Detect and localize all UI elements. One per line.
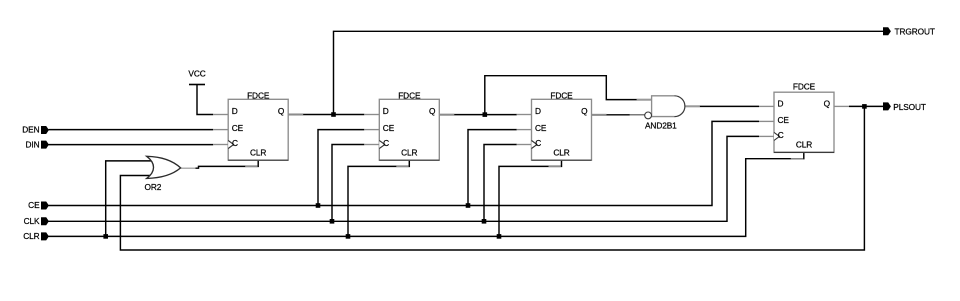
svg-text:Q: Q [581, 106, 588, 116]
svg-text:AND2B1: AND2B1 [645, 121, 677, 131]
svg-text:Q: Q [278, 106, 285, 116]
svg-text:CLR: CLR [796, 140, 812, 150]
svg-text:FDCE: FDCE [793, 81, 816, 91]
svg-text:CE: CE [28, 200, 40, 210]
svg-text:CLK: CLK [24, 216, 40, 226]
svg-text:CLR: CLR [401, 147, 417, 157]
svg-text:CLR: CLR [553, 147, 569, 157]
svg-text:C: C [232, 138, 238, 148]
svg-text:CE: CE [383, 123, 395, 133]
svg-text:FDCE: FDCE [550, 91, 573, 101]
svg-text:FDCE: FDCE [247, 91, 270, 101]
svg-text:CLR: CLR [250, 147, 266, 157]
svg-text:FDCE: FDCE [398, 91, 421, 101]
svg-text:C: C [778, 130, 784, 140]
svg-text:D: D [778, 98, 784, 108]
svg-text:CE: CE [232, 123, 244, 133]
svg-text:C: C [535, 138, 541, 148]
svg-text:OR2: OR2 [145, 182, 162, 192]
svg-text:CE: CE [535, 123, 547, 133]
svg-text:PLSOUT: PLSOUT [893, 102, 926, 112]
svg-text:VCC: VCC [188, 69, 205, 79]
svg-text:C: C [383, 138, 389, 148]
svg-text:D: D [383, 106, 389, 116]
svg-text:Q: Q [429, 106, 436, 116]
svg-text:CLR: CLR [23, 231, 39, 241]
svg-text:DEN: DEN [22, 125, 39, 135]
svg-text:TRGROUT: TRGROUT [895, 27, 935, 37]
svg-text:CE: CE [778, 115, 790, 125]
svg-text:DIN: DIN [26, 139, 40, 149]
svg-text:Q: Q [824, 98, 831, 108]
svg-text:D: D [535, 106, 541, 116]
svg-text:D: D [232, 106, 238, 116]
